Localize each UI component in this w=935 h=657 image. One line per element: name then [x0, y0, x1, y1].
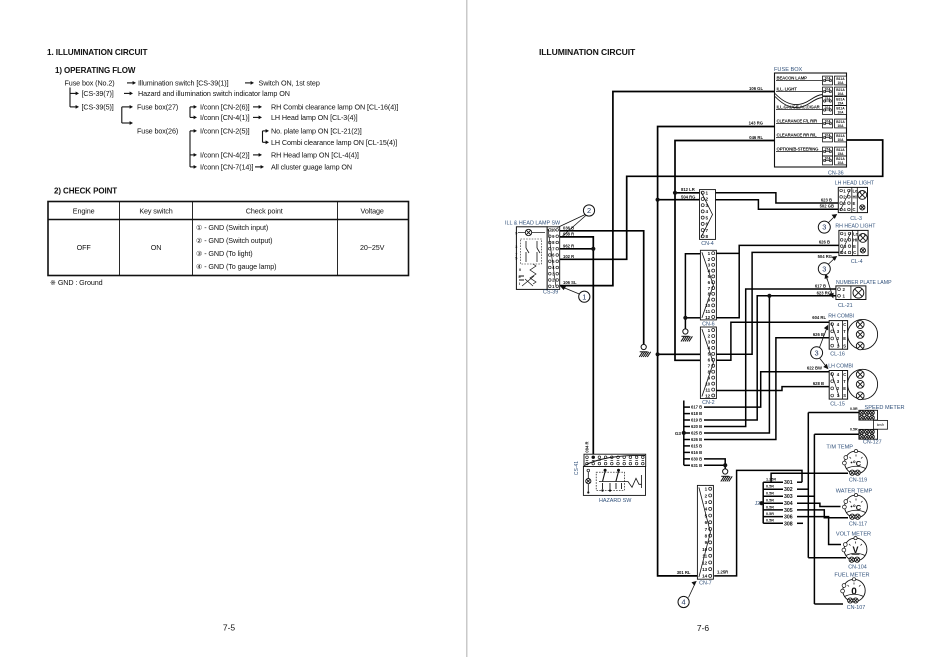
svg-text:C: C	[843, 322, 846, 327]
svg-text:0.5R: 0.5R	[766, 512, 774, 516]
svg-text:619 B: 619 B	[691, 418, 702, 423]
svg-text:0.5R: 0.5R	[850, 428, 858, 432]
svg-text:FUEL METER: FUEL METER	[834, 573, 869, 579]
svg-text:Fuse box(26): Fuse box(26)	[137, 126, 178, 135]
svg-text:7: 7	[705, 527, 708, 532]
svg-text:962 R: 962 R	[563, 243, 574, 248]
svg-text:T: T	[843, 379, 846, 384]
svg-text:WATER TEMP: WATER TEMP	[836, 489, 873, 495]
svg-text:1) OPERATING FLOW: 1) OPERATING FLOW	[55, 66, 136, 75]
svg-text:Voltage: Voltage	[361, 207, 384, 216]
svg-text:LH Head lamp ON [CL-3(4)]: LH Head lamp ON [CL-3(4)]	[271, 113, 358, 122]
svg-text:CS-41: CS-41	[574, 461, 580, 475]
svg-text:6: 6	[708, 280, 711, 285]
svg-text:7-6: 7-6	[697, 623, 710, 633]
svg-text:7: 7	[706, 228, 709, 233]
svg-text:10: 10	[551, 228, 556, 233]
svg-text:0.5R: 0.5R	[850, 407, 858, 411]
svg-text:1: 1	[705, 487, 708, 492]
svg-text:502 GB: 502 GB	[820, 204, 834, 209]
svg-text:304: 304	[784, 501, 793, 507]
svg-text:S: S	[843, 343, 846, 348]
svg-text:③ - GND (To light): ③ - GND (To light)	[196, 249, 253, 258]
svg-text:I/conn [CN-4(2)]: I/conn [CN-4(2)]	[200, 150, 250, 159]
svg-text:617 B: 617 B	[691, 405, 702, 410]
svg-text:10A: 10A	[837, 124, 844, 128]
svg-text:8: 8	[706, 234, 709, 239]
svg-text:T: T	[843, 329, 846, 334]
svg-text:Engine: Engine	[73, 207, 95, 216]
svg-text:II: II	[519, 275, 521, 279]
svg-text:2: 2	[708, 334, 711, 339]
svg-text:G3: G3	[675, 431, 682, 436]
svg-text:CN-6: CN-6	[702, 321, 715, 327]
svg-text:1: 1	[708, 328, 711, 333]
svg-text:7: 7	[708, 364, 711, 369]
svg-text:3: 3	[705, 500, 708, 505]
svg-text:CN-107: CN-107	[847, 605, 866, 611]
svg-text:Check point: Check point	[246, 207, 283, 216]
svg-text:E: E	[843, 336, 846, 341]
svg-text:626 B: 626 B	[819, 240, 830, 245]
svg-text:② - GND (Switch output): ② - GND (Switch output)	[196, 236, 272, 245]
svg-text:LH Combi clearance lamp ON [CL: LH Combi clearance lamp ON [CL-15(4)]	[271, 138, 397, 147]
svg-text:302: 302	[784, 487, 793, 493]
svg-text:0.5R: 0.5R	[766, 499, 774, 503]
svg-text:Hi: Hi	[853, 238, 857, 243]
svg-text:FUSE BOX: FUSE BOX	[774, 67, 803, 73]
svg-text:CS-39: CS-39	[543, 290, 558, 296]
svg-text:CLEARANCE F/L R/R: CLEARANCE F/L R/R	[777, 118, 819, 123]
svg-text:0.5R: 0.5R	[766, 505, 774, 509]
svg-text:8: 8	[705, 533, 708, 538]
svg-text:No. plate lamp ON [CL-21(2)]: No. plate lamp ON [CL-21(2)]	[271, 126, 362, 135]
svg-text:Hazard and illumination switch: Hazard and illumination switch indicator…	[138, 89, 290, 98]
svg-text:CN-117: CN-117	[849, 521, 867, 527]
svg-text:10A: 10A	[837, 138, 844, 142]
svg-text:303: 303	[784, 494, 793, 500]
svg-text:15A: 15A	[825, 147, 832, 151]
svg-text:1.25R: 1.25R	[717, 570, 728, 575]
svg-text:3: 3	[708, 263, 711, 268]
svg-text:306: 306	[784, 515, 793, 521]
svg-text:623 B: 623 B	[821, 197, 832, 202]
svg-text:RH Head lamp ON [CL-4(4)]: RH Head lamp ON [CL-4(4)]	[271, 150, 359, 159]
svg-text:I: I	[519, 282, 520, 286]
svg-text:C: C	[853, 207, 856, 212]
svg-text:Fuse box (No.2): Fuse box (No.2)	[65, 78, 115, 87]
svg-text:10A: 10A	[837, 92, 844, 96]
svg-text:CN-104: CN-104	[848, 564, 867, 570]
svg-text:0.5R: 0.5R	[766, 485, 774, 489]
svg-text:Key switch: Key switch	[139, 207, 172, 216]
svg-text:0.5R: 0.5R	[766, 519, 774, 523]
svg-text:604 RL: 604 RL	[812, 315, 826, 320]
svg-text:V: V	[852, 545, 858, 555]
svg-text:12: 12	[705, 315, 711, 320]
svg-text:094 R: 094 R	[585, 441, 590, 452]
svg-text:616 B: 616 B	[691, 450, 702, 455]
svg-text:0: 0	[519, 268, 521, 272]
svg-text:NUMBER PLATE LAMP: NUMBER PLATE LAMP	[836, 280, 892, 286]
svg-text:9: 9	[515, 232, 517, 236]
svg-text:7: 7	[708, 286, 711, 291]
svg-text:CN-119: CN-119	[849, 477, 867, 483]
svg-text:6: 6	[708, 358, 711, 363]
svg-text:ILL.GAUGE,AC,CIGAR: ILL.GAUGE,AC,CIGAR	[777, 104, 821, 109]
svg-text:4: 4	[682, 598, 686, 607]
svg-text:※ GND : Ground: ※ GND : Ground	[50, 278, 103, 287]
svg-text:10A: 10A	[837, 81, 844, 85]
svg-text:620 B: 620 B	[691, 424, 702, 429]
svg-text:812 LR: 812 LR	[681, 187, 695, 192]
svg-text:I/conn [CN-4(1)]: I/conn [CN-4(1)]	[200, 113, 250, 122]
svg-text:623 RG: 623 RG	[817, 290, 831, 295]
svg-text:All cluster guage lamp ON: All cluster guage lamp ON	[271, 162, 352, 171]
svg-text:305: 305	[784, 508, 793, 514]
svg-text:301: 301	[784, 480, 793, 486]
svg-text:LH COMBI: LH COMBI	[828, 364, 853, 370]
svg-text:km/h: km/h	[877, 423, 884, 427]
svg-text:S: S	[843, 393, 846, 398]
svg-text:2) CHECK POINT: 2) CHECK POINT	[54, 187, 117, 196]
svg-text:102 R: 102 R	[563, 254, 574, 259]
svg-text:°C: °C	[853, 503, 862, 512]
svg-text:OFF: OFF	[77, 243, 92, 252]
svg-text:Lo: Lo	[853, 231, 859, 236]
svg-text:10A: 10A	[837, 161, 844, 165]
svg-text:2: 2	[587, 206, 591, 215]
svg-text:1. ILLUMINATION CIRCUIT: 1. ILLUMINATION CIRCUIT	[47, 48, 147, 57]
svg-text:5: 5	[706, 215, 709, 220]
svg-text:15A: 15A	[837, 152, 844, 156]
svg-text:046 RL: 046 RL	[749, 135, 763, 140]
svg-text:1.25R: 1.25R	[766, 478, 776, 482]
svg-text:143 RG: 143 RG	[749, 121, 763, 126]
svg-text:CLEARANCE RR R/L: CLEARANCE RR R/L	[777, 132, 818, 137]
svg-text:CN-4: CN-4	[701, 241, 714, 247]
svg-text:CL-15: CL-15	[830, 402, 845, 408]
svg-text:OPTION(B-STEERING: OPTION(B-STEERING	[777, 146, 820, 151]
svg-text:E: E	[853, 201, 856, 206]
svg-text:7-5: 7-5	[223, 623, 236, 633]
svg-text:CL-16: CL-16	[830, 352, 845, 358]
svg-text:5: 5	[515, 257, 517, 261]
svg-text:106 GL: 106 GL	[749, 86, 763, 91]
svg-text:15A: 15A	[825, 97, 832, 101]
svg-text:10A: 10A	[825, 156, 832, 160]
svg-text:BEACON LAMP: BEACON LAMP	[777, 75, 808, 80]
svg-text:10A: 10A	[825, 119, 832, 123]
svg-text:631 B: 631 B	[691, 463, 702, 468]
svg-text:622 BW: 622 BW	[807, 366, 822, 371]
svg-text:J2: J2	[755, 501, 761, 507]
svg-text:3: 3	[822, 223, 826, 232]
svg-text:LH HEAD LIGHT: LH HEAD LIGHT	[835, 180, 875, 186]
svg-text:0.5R: 0.5R	[766, 492, 774, 496]
svg-text:T/M TEMP: T/M TEMP	[826, 445, 853, 451]
svg-text:Switch ON, 1st step: Switch ON, 1st step	[259, 78, 320, 87]
svg-text:CN-127: CN-127	[863, 440, 882, 446]
svg-text:1: 1	[582, 292, 586, 301]
svg-text:RH Combi clearance lamp ON [CL: RH Combi clearance lamp ON [CL-16(4)]	[271, 102, 398, 111]
svg-text:617 B: 617 B	[815, 283, 826, 288]
svg-text:630 B: 630 B	[691, 457, 702, 462]
svg-text:615 B: 615 B	[691, 444, 702, 449]
svg-text:ILLUMINATION CIRCUIT: ILLUMINATION CIRCUIT	[539, 47, 636, 57]
svg-text:Fuse box(27): Fuse box(27)	[137, 102, 178, 111]
svg-text:625 B: 625 B	[691, 431, 702, 436]
svg-text:I/conn [CN-7(14)]: I/conn [CN-7(14)]	[200, 162, 254, 171]
svg-text:10A: 10A	[837, 110, 844, 114]
svg-text:301 RL: 301 RL	[677, 570, 691, 575]
svg-text:12: 12	[705, 393, 711, 398]
svg-text:2: 2	[708, 257, 711, 262]
svg-text:10A: 10A	[825, 106, 832, 110]
svg-text:626 B: 626 B	[813, 332, 824, 337]
svg-text:[CS-39(5)]: [CS-39(5)]	[82, 102, 114, 111]
svg-text:2: 2	[705, 493, 708, 498]
svg-text:3: 3	[815, 348, 819, 357]
svg-text:I/conn [CN-2(6)]: I/conn [CN-2(6)]	[200, 102, 250, 111]
svg-text:ILL & HEAD LAMP SW: ILL & HEAD LAMP SW	[505, 221, 561, 227]
svg-text:036 B: 036 B	[563, 225, 574, 230]
svg-text:E: E	[853, 244, 856, 249]
svg-text:RH COMBI: RH COMBI	[828, 314, 854, 320]
svg-text:628 B: 628 B	[813, 381, 824, 386]
svg-text:Hi: Hi	[853, 195, 857, 200]
svg-text:CL-3: CL-3	[850, 216, 862, 222]
svg-text:20~25V: 20~25V	[360, 243, 385, 252]
svg-text:E: E	[843, 386, 846, 391]
svg-text:Lo: Lo	[853, 188, 859, 193]
svg-text:11: 11	[705, 309, 710, 314]
svg-text:0: 0	[851, 587, 857, 598]
svg-text:618 B: 618 B	[691, 411, 702, 416]
svg-text:4: 4	[706, 209, 709, 214]
svg-text:ON: ON	[151, 243, 162, 252]
svg-text:10A: 10A	[825, 87, 832, 91]
svg-text:11: 11	[705, 387, 710, 392]
svg-text:ILL. LIGHT: ILL. LIGHT	[777, 86, 798, 91]
svg-text:3: 3	[515, 245, 517, 249]
svg-text:④ - GND (To gauge lamp): ④ - GND (To gauge lamp)	[196, 262, 276, 271]
svg-text:3: 3	[822, 264, 826, 273]
svg-text:VOLT METER: VOLT METER	[836, 532, 871, 538]
svg-text:① - GND (Switch input): ① - GND (Switch input)	[196, 223, 268, 232]
svg-text:1: 1	[708, 251, 711, 256]
svg-text:Illumination switch [CS-39(1)]: Illumination switch [CS-39(1)]	[138, 78, 229, 87]
svg-text:14: 14	[702, 574, 708, 579]
svg-text:C: C	[853, 250, 856, 255]
svg-text:1: 1	[706, 191, 709, 196]
svg-text:HAZARD SW: HAZARD SW	[599, 498, 632, 504]
svg-text:308: 308	[784, 521, 793, 527]
svg-text:RH HEAD LIGHT: RH HEAD LIGHT	[835, 223, 876, 229]
svg-text:3: 3	[708, 340, 711, 345]
svg-text:°C: °C	[853, 459, 862, 468]
svg-text:106 SL: 106 SL	[563, 280, 577, 285]
svg-text:10A: 10A	[825, 76, 832, 80]
svg-text:CN-2: CN-2	[702, 400, 715, 406]
svg-text:10A: 10A	[825, 133, 832, 137]
svg-text:15A: 15A	[837, 101, 844, 105]
svg-text:CL-4: CL-4	[851, 259, 863, 265]
svg-text:C: C	[843, 372, 846, 377]
svg-text:CN-7: CN-7	[699, 581, 712, 587]
svg-text:504 RG: 504 RG	[681, 194, 695, 199]
svg-text:I/conn [CN-2(5)]: I/conn [CN-2(5)]	[200, 126, 250, 135]
svg-text:626 B: 626 B	[691, 437, 702, 442]
svg-text:[CS-39(7)]: [CS-39(7)]	[82, 89, 114, 98]
svg-text:CL-21: CL-21	[838, 303, 853, 309]
svg-text:504 RG: 504 RG	[818, 254, 832, 259]
svg-text:13: 13	[702, 567, 708, 572]
